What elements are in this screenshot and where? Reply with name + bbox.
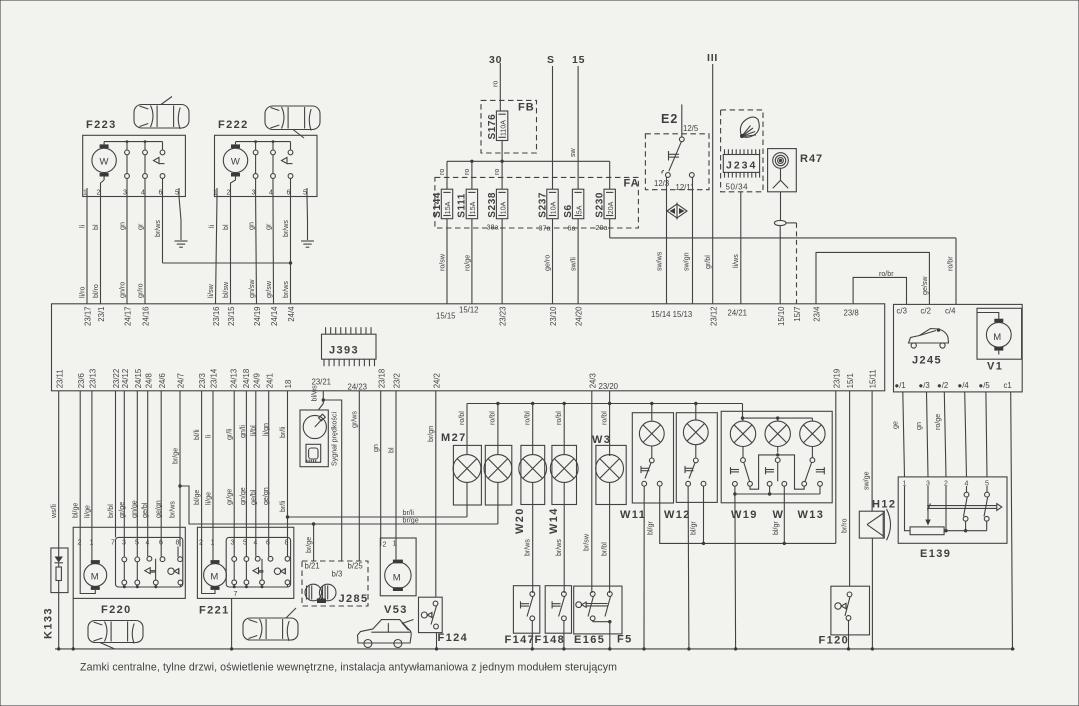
V53 car icon <box>358 620 414 648</box>
svg-text:br/ge: br/ge <box>305 537 313 553</box>
svg-text:S6: S6 <box>563 204 574 217</box>
svg-text:V53: V53 <box>384 604 408 616</box>
svg-text:F5: F5 <box>617 634 633 646</box>
svg-text:b/25: b/25 <box>348 562 364 571</box>
svg-text:c1: c1 <box>1004 381 1012 390</box>
lamp unit W19 / W / W13 <box>721 411 832 521</box>
svg-text:F222: F222 <box>218 119 249 131</box>
F222 switch column 6 with actuator arrow <box>282 142 293 197</box>
wire 24/15 -> F220.5 (gn/ge) <box>130 391 138 547</box>
E139 bottom bus <box>944 530 987 532</box>
svg-text:bl/li: bl/li <box>193 429 201 440</box>
ground at F223 <box>175 241 188 248</box>
svg-text:24/12: 24/12 <box>121 369 130 389</box>
wire J245 e/3 -> E139.3 (gn) <box>915 392 928 477</box>
svg-text:br/ws: br/ws <box>282 281 290 298</box>
F220 motor <box>80 547 107 594</box>
svg-text:10A: 10A <box>499 201 507 214</box>
wire connector -> pin 15/7 (dashed branch) <box>786 223 797 304</box>
E139 rheostat <box>905 486 945 535</box>
svg-text:bl/ge: bl/ge <box>72 503 80 518</box>
svg-text:br/ge: br/ge <box>172 448 180 464</box>
wire 24/8 -> F220.4 (ge/bl) <box>141 391 149 547</box>
E2 contact lever <box>669 142 682 171</box>
J245 bottom pin labels <box>895 381 1012 390</box>
wire 15/1 -> F120 (br/ro) <box>841 391 850 586</box>
wire E2 12/11 -> pin 15/13 (sw/gn) <box>683 177 693 303</box>
svg-text:ro/bl: ro/bl <box>601 411 609 425</box>
svg-text:2: 2 <box>383 542 387 549</box>
svg-text:M: M <box>210 571 218 582</box>
svg-text:F147: F147 <box>505 634 536 646</box>
svg-text:gr/ws: gr/ws <box>351 411 359 428</box>
wire 24/7 -> F220.8 (br/ge above, br/ws below) <box>169 391 182 547</box>
svg-text:ro/br: ro/br <box>947 256 955 271</box>
wire W19 left terminal -> ground rail <box>734 494 737 649</box>
svg-text:gr: gr <box>137 223 145 230</box>
svg-text:F124: F124 <box>438 632 469 644</box>
svg-text:24/14: 24/14 <box>270 306 279 326</box>
J234 terminal 50/34 <box>726 183 749 192</box>
svg-text:15/11: 15/11 <box>869 369 878 388</box>
speed signal unit (Sygnal predkosci) <box>300 410 339 467</box>
wire R47 -> connector <box>780 192 782 221</box>
svg-text:2: 2 <box>227 190 231 197</box>
F220 lock actuator arrow <box>145 568 156 574</box>
svg-text:ro/bl: ro/bl <box>555 411 563 425</box>
F222 car icon <box>265 106 320 138</box>
F223 car icon <box>134 97 189 130</box>
svg-text:br/ws: br/ws <box>154 220 162 237</box>
wire F222 pin2 -> 23/15 (bl, bl/sw) <box>222 197 231 304</box>
wire bus -> S238 (ro) <box>493 161 502 189</box>
svg-text:24/9: 24/9 <box>252 373 261 388</box>
svg-text:br/ws: br/ws <box>555 539 563 556</box>
wire F222 pin1 -> 23/16 (li, li/sw) <box>207 197 217 304</box>
F221 pin 7 -> ground rail <box>232 591 238 649</box>
svg-text:W20: W20 <box>514 507 526 534</box>
svg-text:24/6: 24/6 <box>158 373 167 388</box>
svg-text:23/18: 23/18 <box>377 369 386 389</box>
wire 24/1 -> F221.6 (li/gn, ge/gn) <box>262 391 270 547</box>
wire br/ge branch -> J285 b/21 <box>305 524 314 561</box>
svg-text:c/3: c/3 <box>897 307 907 316</box>
svg-text:●/3: ●/3 <box>919 381 930 390</box>
F223 switch column 6 with actuator arrow <box>154 142 165 197</box>
module J245 (tailgate lock unit) <box>894 304 1023 392</box>
module top pin labels <box>84 306 859 327</box>
wire W12 left terminal -> ground rail <box>687 486 690 649</box>
wire S -> fuse S237 <box>552 66 554 189</box>
F220 car icon <box>88 621 143 649</box>
svg-text:ge/sw: ge/sw <box>921 276 929 295</box>
E2 terminal 12/3 <box>654 171 670 189</box>
svg-text:bl/gr: bl/gr <box>646 521 654 535</box>
F220 inner switch box <box>116 537 183 587</box>
wire 23/2 -> V53.1 (bl) <box>388 391 397 560</box>
wire bus -> S144 (ro) <box>438 161 447 189</box>
E2 actuator bar <box>669 151 680 161</box>
F222 pin 1 stub <box>216 188 218 197</box>
svg-text:W: W <box>231 157 240 168</box>
svg-text:23/14: 23/14 <box>210 368 219 388</box>
wire 24/18 -> F221.5 (gn/li, gn/ge) <box>239 391 247 547</box>
svg-text:ro: ro <box>491 81 499 87</box>
svg-text:15A: 15A <box>469 201 477 214</box>
inline connector on R47 wire <box>774 220 786 225</box>
svg-text:gn/ge: gn/ge <box>239 487 247 505</box>
svg-text:37a: 37a <box>539 224 551 233</box>
svg-text:sw/ge: sw/ge <box>863 471 871 490</box>
F221 inner switch box <box>226 537 290 587</box>
svg-text:li/ge: li/ge <box>205 492 213 505</box>
wire 24/23 -> J285 b/25 (gr/ws) <box>351 391 360 561</box>
svg-text:li/ge: li/ge <box>83 505 91 518</box>
wire 24/9 -> F221.4 (li/bl, ge/bl) <box>249 391 257 547</box>
svg-text:c/2: c/2 <box>921 307 931 316</box>
F221 lock actuator arrow <box>253 568 263 574</box>
svg-text:W: W <box>773 509 785 521</box>
svg-text:6: 6 <box>266 540 270 547</box>
ground rail <box>55 647 1015 650</box>
wire S238 -> pin 23/23 <box>501 219 503 304</box>
W13 lamp and switch <box>800 418 825 486</box>
svg-text:24/17: 24/17 <box>124 307 133 327</box>
lamp unit W12 <box>664 404 717 522</box>
svg-text:bl: bl <box>388 447 396 453</box>
svg-text:c/4: c/4 <box>945 307 956 316</box>
relay J393 inside module <box>322 327 377 366</box>
svg-text:15/12: 15/12 <box>459 306 479 315</box>
wire E165 -> ground rail <box>609 622 611 649</box>
svg-text:12/5: 12/5 <box>683 124 699 133</box>
svg-text:ge/bl: ge/bl <box>249 489 257 505</box>
svg-text:FB: FB <box>518 102 535 114</box>
wire F223 pin1 -> 23/17 (li, li/ro) <box>79 197 88 304</box>
wire 23/13 -> F220.1 (li/ge) <box>83 391 92 547</box>
J234 light icon <box>740 117 759 138</box>
W19/W/W13 internal link (inverted U) <box>750 455 804 489</box>
wire pin 23/8 -> J245 c/3 (ro/br) <box>853 270 906 304</box>
svg-text:F221: F221 <box>199 605 230 617</box>
E139 linkage bar <box>927 504 1002 511</box>
wire F222 pin5 -> ground <box>306 197 309 241</box>
lamp W3 (interior rear) <box>592 434 626 593</box>
svg-text:R47: R47 <box>800 153 823 165</box>
wire 30 -> fuse S176 (ro) <box>491 63 500 111</box>
svg-text:sw/ws: sw/ws <box>656 251 664 271</box>
svg-text:S: S <box>547 54 555 66</box>
svg-text:J234: J234 <box>726 159 757 171</box>
svg-text:23/1: 23/1 <box>97 307 106 322</box>
svg-text:W11: W11 <box>620 509 646 521</box>
W lamp and switch <box>765 418 790 486</box>
svg-text:3: 3 <box>123 190 127 197</box>
svg-text:br/ro: br/ro <box>841 518 849 533</box>
wire W11 right terminal -> bl/gr bus <box>646 486 836 545</box>
svg-text:FA: FA <box>624 178 640 190</box>
svg-text:ge/gn: ge/gn <box>155 500 163 518</box>
svg-text:ws/li: ws/li <box>50 504 58 519</box>
svg-text:4: 4 <box>141 190 145 197</box>
wire J245 c1 -> ground rail <box>1011 392 1013 649</box>
F223 switch column 3 <box>125 142 130 197</box>
buzzer J285 (dashed box) <box>302 561 368 606</box>
wire F124 -> ground rail <box>436 633 438 649</box>
F223 pin 5 stub <box>178 188 180 197</box>
lock symbol (double arrow) under E2 <box>667 203 687 220</box>
fuse S176 110A <box>487 111 508 141</box>
svg-text:23/13: 23/13 <box>89 369 98 389</box>
svg-text:23/17: 23/17 <box>84 307 93 327</box>
lamp M27b <box>484 404 512 525</box>
svg-text:ge: ge <box>892 421 900 429</box>
F223 internal bus <box>104 140 162 143</box>
svg-text:J245: J245 <box>912 355 942 367</box>
svg-text:M27: M27 <box>441 432 467 444</box>
svg-text:23/21: 23/21 <box>312 378 332 387</box>
svg-text:K133: K133 <box>43 607 55 639</box>
svg-text:24/16: 24/16 <box>142 307 151 327</box>
F220 frame -> ground rail <box>72 598 74 649</box>
svg-text:15/15: 15/15 <box>436 312 456 321</box>
svg-text:F120: F120 <box>819 635 850 647</box>
lamp unit W11 <box>620 404 674 522</box>
svg-text:br/li: br/li <box>403 509 415 517</box>
svg-text:gn: gn <box>119 222 127 230</box>
svg-text:ro/br: ro/br <box>879 270 894 278</box>
E2 terminal 12/11 <box>676 173 695 192</box>
switch E165 (tailgate contact) <box>574 586 633 646</box>
motor V1 inside J245 <box>977 308 1022 372</box>
wire F223 pin5 -> ground <box>179 197 181 241</box>
wire bus -> S111 (ro) <box>463 161 472 189</box>
svg-text:J393: J393 <box>329 345 359 357</box>
F222 pin numbers <box>213 190 307 197</box>
svg-text:li/sw: li/sw <box>207 283 215 298</box>
ground at F222 <box>301 241 314 248</box>
wire pin 23/4 -> J245 c/2 (ge/sw) <box>816 252 929 304</box>
fuse S6 5A, terminal 6a <box>563 189 584 232</box>
svg-text:15A: 15A <box>444 201 452 214</box>
svg-text:15/14 15/13: 15/14 15/13 <box>651 310 692 319</box>
switch F148 (door contact) <box>535 586 572 646</box>
wire 24/2 -> F124 (br/gn) <box>427 391 436 597</box>
F221 car icon <box>243 608 298 641</box>
svg-text:gr/ge: gr/ge <box>118 502 126 518</box>
svg-text:bl: bl <box>222 224 230 230</box>
svg-text:23/6: 23/6 <box>77 373 86 388</box>
svg-text:ro/sw: ro/sw <box>439 253 447 271</box>
svg-text:2: 2 <box>78 540 82 547</box>
svg-text:bl/gr: bl/gr <box>772 521 780 535</box>
lamp W20 (footwell) <box>514 404 547 594</box>
svg-text:H12: H12 <box>872 499 896 511</box>
switch F147 (door contact) <box>505 586 540 646</box>
wire E2 12/3 -> pin 15/14 (sw/ws) <box>656 177 667 303</box>
svg-text:5A: 5A <box>575 205 583 214</box>
svg-text:br/gn: br/gn <box>427 426 435 442</box>
svg-text:S144: S144 <box>432 192 443 218</box>
E139 switch 5 <box>984 486 989 531</box>
svg-text:li/gn: li/gn <box>262 423 270 436</box>
svg-text:15/1: 15/1 <box>846 373 855 388</box>
fuse S237 10A, terminal 37a <box>537 189 558 232</box>
svg-text:br/ws: br/ws <box>282 220 290 237</box>
svg-text:23/23: 23/23 <box>499 307 508 327</box>
svg-text:W13: W13 <box>798 509 825 521</box>
switch unit E139 <box>898 477 1007 560</box>
svg-text:M: M <box>393 572 401 583</box>
svg-text:sw: sw <box>569 147 577 157</box>
wire 24/13 -> F221.3 (gr/li, gr/ge) <box>226 391 235 547</box>
svg-text:ro/bl: ro/bl <box>489 411 497 425</box>
F223 pin numbers <box>83 190 179 197</box>
svg-text:24/19: 24/19 <box>253 307 262 327</box>
svg-text:23/3: 23/3 <box>198 373 207 388</box>
wire S176 -> fuse bus (ro) <box>501 141 503 162</box>
svg-text:●/2: ●/2 <box>937 381 948 390</box>
svg-text:1: 1 <box>213 190 217 197</box>
wire III -> pin 23/12 (gr/bl) <box>704 64 713 304</box>
F222 pin 5 stub <box>306 188 308 197</box>
svg-text:ro: ro <box>493 169 501 175</box>
fuse S144 15A <box>432 189 453 219</box>
svg-text:1: 1 <box>83 190 87 197</box>
wire W12 right terminal -> bl/gr bus <box>690 486 704 543</box>
svg-text:24/3: 24/3 <box>588 373 597 388</box>
wire J245 e/4 -> E139.4 <box>965 392 967 477</box>
svg-text:W14: W14 <box>548 507 560 534</box>
F220 key switch symbol <box>168 568 179 574</box>
svg-text:●/1: ●/1 <box>895 381 906 390</box>
svg-text:23/4: 23/4 <box>813 306 822 322</box>
svg-text:gn/li: gn/li <box>239 425 247 438</box>
wire bus -> S230 <box>609 161 611 189</box>
svg-text:III: III <box>707 52 718 64</box>
F221 key switch symbol <box>274 568 285 574</box>
svg-text:20A: 20A <box>607 201 615 214</box>
svg-text:15: 15 <box>572 54 585 66</box>
lamp M27a (interior light) <box>441 404 481 518</box>
wire 23/22 -> F220.7 (br/bl) <box>107 391 116 538</box>
svg-text:24/18: 24/18 <box>242 369 251 389</box>
W19/W/W13 internal ground bus <box>733 486 820 495</box>
svg-text:V1: V1 <box>987 361 1003 373</box>
svg-text:S238: S238 <box>487 192 498 218</box>
module bottom pin labels <box>55 368 877 391</box>
svg-text:li/ws: li/ws <box>732 254 740 268</box>
wire F222 pin6 -> 24/4 (br/ws) <box>282 142 292 304</box>
svg-text:br/li: br/li <box>279 500 287 512</box>
svg-text:S237: S237 <box>537 192 548 218</box>
svg-text:gn: gn <box>248 222 256 230</box>
svg-text:23/20: 23/20 <box>599 382 619 391</box>
F220 switch columns <box>122 547 183 589</box>
svg-text:gr/bl: gr/bl <box>704 255 712 269</box>
switch E2 (driver door lock, dashed box) <box>645 112 709 190</box>
svg-text:sw/gn: sw/gn <box>683 252 691 271</box>
siren R47 <box>768 149 824 192</box>
wire J245 e/2 -> E139.2 (ro/ge) <box>934 392 946 477</box>
wire S111 -> pin 15/12 (ro/ge) <box>463 219 472 304</box>
fuse holder FB (dashed box) <box>481 100 537 153</box>
fuse S238 10A, terminal 38a <box>487 189 508 231</box>
wire K133 -> ground rail <box>58 593 60 649</box>
W19 lamp and switch <box>730 418 755 486</box>
control module (central box) <box>52 304 885 391</box>
F222 motor <box>223 142 247 180</box>
svg-text:4: 4 <box>269 190 273 197</box>
wire H12 -> ground rail <box>871 538 873 649</box>
svg-text:li: li <box>79 224 87 228</box>
svg-text:S111: S111 <box>457 193 468 218</box>
svg-text:7: 7 <box>111 540 115 547</box>
node III <box>707 52 718 64</box>
svg-text:2: 2 <box>97 190 101 197</box>
svg-text:gn: gn <box>372 444 380 452</box>
svg-text:W3: W3 <box>592 434 611 446</box>
wire F223 pin4 -> 24/16 (gr, gr/ro) <box>137 197 146 304</box>
wire junction 24/7 -> interior light feed (br/ge) <box>180 486 498 526</box>
wire F223 pin3 -> 24/17 (gn, gn/ro) <box>119 197 128 304</box>
wire 23/18 -> V53.2 (gn) <box>372 391 381 546</box>
svg-text:1: 1 <box>393 541 397 548</box>
E2 terminal 12/5 <box>679 104 698 141</box>
wire W11 left terminal -> ground rail (F5 circuit) <box>643 486 645 649</box>
svg-text:Zamki centralne, tylne drzwi,: Zamki centralne, tylne drzwi, oświetleni… <box>80 662 617 674</box>
svg-text:W12: W12 <box>664 509 691 521</box>
svg-text:10A: 10A <box>550 201 558 214</box>
svg-text:W: W <box>100 157 109 168</box>
actuator F222 (rear right door lock) <box>215 119 318 197</box>
svg-text:ro: ro <box>463 169 471 175</box>
svg-text:gr/li: gr/li <box>226 428 234 440</box>
wire connector -> pin 15/10 <box>779 226 781 304</box>
svg-text:15/7: 15/7 <box>793 307 802 322</box>
svg-text:b/3: b/3 <box>332 570 343 579</box>
wire feed into W19/W/W13 <box>741 404 813 420</box>
F222 motor -> pin 2 <box>231 180 236 197</box>
svg-text:23/22: 23/22 <box>112 369 121 389</box>
svg-text:E165: E165 <box>574 634 605 646</box>
svg-text:24/23: 24/23 <box>348 383 368 392</box>
svg-text:gr/ro: gr/ro <box>137 283 145 298</box>
wire 23/20 -> W3 lamp <box>601 391 610 456</box>
svg-text:br/ge: br/ge <box>403 517 419 525</box>
wire 24/12 -> F220.3 (gr/ge) <box>118 391 126 547</box>
svg-text:20a: 20a <box>596 223 608 232</box>
lamp feed line from 23/20 <box>467 402 743 405</box>
F222 switch column 4 <box>271 142 276 197</box>
svg-text:ro/ge: ro/ge <box>934 414 942 430</box>
svg-text:5: 5 <box>303 190 307 197</box>
svg-text:3: 3 <box>252 190 256 197</box>
svg-text:br/ws: br/ws <box>169 501 177 518</box>
wire F223 pin6 (br/ws) joining F222 <box>154 197 291 264</box>
svg-text:23/16: 23/16 <box>212 307 221 327</box>
svg-text:8: 8 <box>176 540 180 547</box>
wire J245 e/1 -> E139.1 (ge) <box>892 392 905 477</box>
node S (terminal) <box>547 54 555 66</box>
svg-text:F220: F220 <box>101 604 132 616</box>
svg-text:bl: bl <box>92 224 100 230</box>
svg-text:ro/bl: ro/bl <box>458 411 466 425</box>
wire 18 -> F221.8 (br/li) <box>279 391 289 547</box>
wire pin 23/11 -> K133 (ws/li) <box>50 391 59 548</box>
svg-text:E139: E139 <box>920 548 951 560</box>
actuator F223 (rear left door lock) <box>83 119 186 197</box>
